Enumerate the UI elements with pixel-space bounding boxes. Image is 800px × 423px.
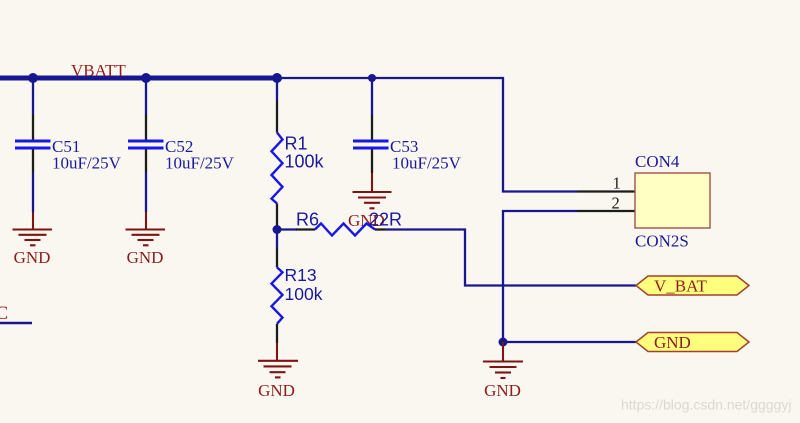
resistor R6: [296, 224, 386, 236]
resistor R13: [272, 249, 283, 344]
capacitor C51: [15, 115, 51, 173]
svg-text:10uF/25V: 10uF/25V: [52, 154, 122, 173]
svg-text:2: 2: [612, 194, 620, 213]
wire C52 to ground: [145, 172, 147, 212]
svg-text:GND: GND: [127, 248, 164, 267]
svg-text:100k: 100k: [285, 284, 323, 304]
wire VBATT bus (thick): [0, 76, 277, 81]
wire VBATT thin continuation: [277, 78, 577, 192]
svg-text:https://blog.csdn.net/ggggyj: https://blog.csdn.net/ggggyj: [621, 397, 791, 413]
wire C51 to ground: [32, 172, 34, 212]
wire junction to R13: [276, 230, 278, 249]
svg-text:GND: GND: [258, 381, 295, 400]
power port V_BAT: [636, 276, 749, 296]
junction R1/R6/R13: [273, 225, 282, 234]
svg-text:R13: R13: [285, 265, 317, 285]
resistor R1: [272, 101, 283, 230]
junction GND net: [499, 338, 508, 347]
capacitor C52: [128, 115, 164, 173]
svg-text:10uF/25V: 10uF/25V: [392, 154, 462, 173]
junction at C51: [28, 73, 38, 83]
wire pin2 net: [503, 211, 577, 342]
connector CON4 body: [635, 173, 710, 228]
junction at C53: [368, 74, 376, 82]
svg-text:C: C: [0, 303, 8, 324]
svg-text:CON4: CON4: [635, 152, 680, 171]
ground under C51: [13, 212, 53, 245]
wire from bus to C51: [32, 78, 34, 115]
svg-text:CON2S: CON2S: [635, 232, 689, 251]
wire fragment left edge: [0, 322, 32, 325]
svg-text:10uF/25V: 10uF/25V: [165, 154, 235, 173]
wire junction to GND flag: [503, 341, 636, 343]
wire from bus to R1: [276, 80, 278, 101]
capacitor C53: [353, 115, 389, 173]
ground under C52: [126, 212, 166, 245]
pin 1 of CON4: [577, 190, 635, 192]
wire to pin 2: [577, 210, 635, 212]
svg-text:VBATT: VBATT: [71, 61, 126, 80]
ground under R13: [258, 343, 298, 377]
ground under C53: [353, 173, 392, 208]
svg-text:GND: GND: [484, 381, 521, 400]
wire from bus to C53: [371, 80, 373, 116]
svg-text:V_BAT: V_BAT: [654, 277, 708, 296]
wire junction to R6: [277, 228, 297, 230]
power port GND flag: [636, 333, 749, 353]
svg-text:1: 1: [613, 174, 621, 193]
svg-text:100k: 100k: [285, 152, 325, 172]
svg-text:GND: GND: [654, 333, 691, 352]
wire from bus to C52: [145, 78, 147, 115]
junction at R1: [272, 73, 282, 83]
junction at C52: [141, 73, 151, 83]
svg-text:R1: R1: [285, 134, 308, 154]
svg-text:GND: GND: [14, 248, 51, 267]
svg-text:R6: R6: [296, 210, 319, 230]
svg-text:22R: 22R: [369, 210, 402, 230]
wire R6 to V_BAT flag: [386, 230, 637, 286]
ground under junction: [483, 342, 523, 378]
